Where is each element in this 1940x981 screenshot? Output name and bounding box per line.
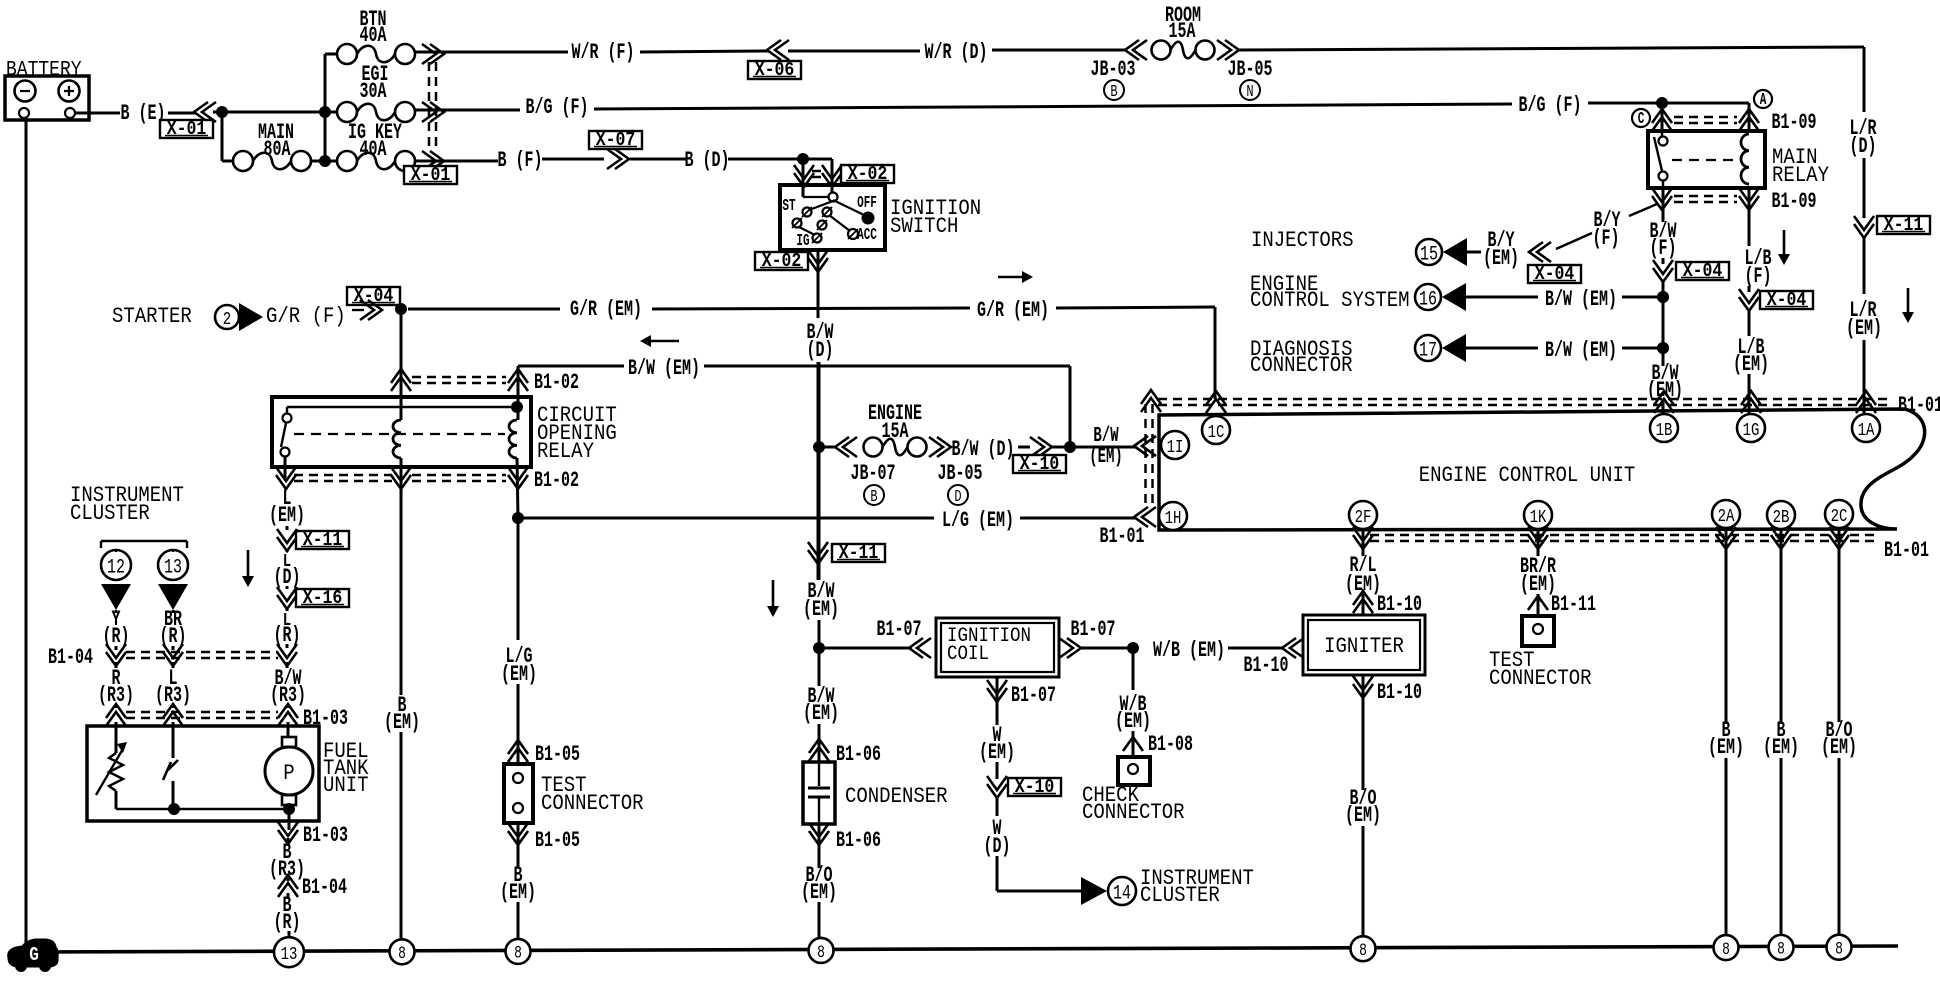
svg-text:X-04: X-04	[1683, 261, 1723, 283]
svg-text:1G: 1G	[1743, 419, 1760, 441]
svg-text:X-06: X-06	[755, 60, 795, 82]
svg-text:B1-07: B1-07	[877, 616, 922, 642]
svg-text:B: B	[1110, 83, 1118, 101]
svg-text:12: 12	[107, 556, 125, 579]
svg-text:X-02: X-02	[848, 164, 888, 186]
svg-text:40A: 40A	[360, 22, 387, 48]
svg-text:B1-07: B1-07	[1011, 682, 1056, 708]
svg-text:B/G (F): B/G (F)	[1519, 92, 1582, 118]
svg-text:W/R (D): W/R (D)	[925, 39, 988, 65]
svg-text:X-04: X-04	[1535, 264, 1575, 286]
svg-text:2F: 2F	[1355, 506, 1372, 528]
svg-text:2B: 2B	[1773, 506, 1790, 528]
svg-text:B1-02: B1-02	[534, 467, 579, 493]
svg-text:X-11: X-11	[1884, 215, 1924, 237]
svg-text:X-04: X-04	[1767, 290, 1807, 312]
svg-text:13: 13	[281, 943, 298, 965]
svg-text:(EM): (EM)	[1089, 446, 1123, 470]
svg-text:ACC: ACC	[857, 226, 877, 245]
svg-text:X-16: X-16	[303, 588, 343, 610]
svg-text:(F): (F)	[1650, 235, 1677, 261]
svg-text:B/W (EM): B/W (EM)	[1545, 286, 1617, 312]
svg-text:2A: 2A	[1718, 505, 1735, 527]
svg-text:X-02: X-02	[762, 251, 802, 273]
svg-text:SWITCH: SWITCH	[890, 215, 958, 240]
svg-text:1H: 1H	[1165, 507, 1182, 529]
svg-text:B (E): B (E)	[121, 100, 166, 126]
svg-text:B1-09: B1-09	[1772, 188, 1817, 214]
svg-text:B (F): B (F)	[498, 147, 543, 173]
svg-text:ST: ST	[782, 197, 795, 216]
svg-text:(EM): (EM)	[1345, 802, 1381, 828]
svg-text:C: C	[1638, 110, 1645, 129]
svg-text:30A: 30A	[360, 78, 387, 104]
svg-text:(EM): (EM)	[384, 709, 420, 735]
svg-text:B1-10: B1-10	[1244, 652, 1289, 678]
svg-text:(R): (R)	[274, 909, 301, 935]
svg-text:B/W (EM): B/W (EM)	[1545, 337, 1617, 363]
svg-text:15A: 15A	[1169, 18, 1196, 44]
svg-text:B/W (D): B/W (D)	[952, 436, 1015, 462]
svg-text:(D): (D)	[984, 833, 1011, 859]
svg-text:X-07: X-07	[596, 130, 636, 152]
svg-text:G/R (F): G/R (F)	[266, 305, 346, 330]
svg-text:(EM): (EM)	[501, 661, 537, 687]
svg-text:IG: IG	[796, 232, 809, 251]
svg-text:(EM): (EM)	[1115, 708, 1151, 734]
svg-text:X-01: X-01	[411, 165, 451, 187]
svg-text:16: 16	[1419, 288, 1437, 311]
svg-text:B1-07: B1-07	[1071, 616, 1116, 642]
svg-text:X-11: X-11	[303, 530, 343, 552]
svg-text:(EM): (EM)	[803, 596, 839, 622]
svg-text:CONNECTOR: CONNECTOR	[541, 792, 644, 817]
svg-text:COIL: COIL	[947, 642, 989, 666]
svg-text:CONDENSER: CONDENSER	[845, 785, 948, 810]
svg-text:B/W (EM): B/W (EM)	[628, 355, 700, 381]
svg-text:(D): (D)	[1850, 133, 1877, 159]
svg-text:UNIT: UNIT	[323, 774, 369, 799]
svg-text:JB-05: JB-05	[938, 460, 983, 486]
svg-text:G: G	[29, 945, 39, 967]
svg-text:(EM): (EM)	[801, 879, 837, 905]
svg-text:(EM): (EM)	[1763, 734, 1799, 760]
svg-text:L/G (EM): L/G (EM)	[942, 507, 1014, 533]
svg-text:CLUSTER: CLUSTER	[1140, 884, 1220, 909]
svg-text:W/R (F): W/R (F)	[572, 39, 635, 65]
svg-text:2C: 2C	[1831, 505, 1848, 527]
svg-text:B1-04: B1-04	[48, 644, 93, 670]
svg-text:8: 8	[398, 943, 406, 963]
svg-text:8: 8	[1722, 939, 1730, 959]
svg-text:B1-11: B1-11	[1551, 591, 1596, 617]
svg-text:X-01: X-01	[167, 119, 207, 141]
svg-text:JB-05: JB-05	[1228, 56, 1273, 82]
svg-text:(EM): (EM)	[1483, 245, 1519, 271]
svg-text:CONTROL SYSTEM: CONTROL SYSTEM	[1250, 289, 1410, 314]
svg-text:15A: 15A	[882, 418, 909, 444]
svg-text:B1-10: B1-10	[1377, 679, 1422, 705]
svg-text:1K: 1K	[1530, 506, 1547, 528]
svg-text:40A: 40A	[360, 136, 387, 162]
svg-text:P: P	[283, 762, 294, 787]
svg-text:(EM): (EM)	[1708, 734, 1744, 760]
svg-text:1C: 1C	[1208, 421, 1225, 443]
svg-text:1I: 1I	[1167, 436, 1184, 458]
svg-text:CONNECTOR: CONNECTOR	[1489, 667, 1592, 692]
svg-text:G/R (EM): G/R (EM)	[570, 296, 642, 322]
svg-text:13: 13	[164, 556, 182, 579]
svg-text:(EM): (EM)	[500, 879, 536, 905]
svg-text:B1-05: B1-05	[535, 741, 580, 767]
svg-text:B1-10: B1-10	[1377, 591, 1422, 617]
svg-text:B1-03: B1-03	[303, 822, 348, 848]
svg-text:CLUSTER: CLUSTER	[70, 502, 150, 527]
svg-text:(EM): (EM)	[1821, 734, 1857, 760]
svg-text:D: D	[954, 488, 961, 506]
svg-text:B1-02: B1-02	[534, 369, 579, 395]
svg-text:8: 8	[1835, 939, 1843, 959]
svg-text:(EM): (EM)	[1733, 351, 1769, 377]
svg-text:N: N	[1246, 83, 1253, 101]
svg-text:(EM): (EM)	[803, 700, 839, 726]
svg-text:B1-01: B1-01	[1100, 523, 1145, 549]
svg-text:B1-01: B1-01	[1884, 537, 1929, 563]
svg-text:IGNITER: IGNITER	[1324, 635, 1404, 660]
svg-text:B1-05: B1-05	[535, 827, 580, 853]
svg-text:OFF: OFF	[857, 194, 877, 213]
svg-text:B1-01: B1-01	[1898, 392, 1940, 418]
svg-text:(EM): (EM)	[269, 502, 305, 528]
svg-text:B/G (F): B/G (F)	[526, 94, 589, 120]
svg-text:X-11: X-11	[839, 543, 879, 565]
svg-text:CONNECTOR: CONNECTOR	[1250, 354, 1353, 379]
svg-text:A: A	[1760, 91, 1767, 110]
svg-text:1B: 1B	[1656, 419, 1673, 441]
svg-text:JB-03: JB-03	[1091, 56, 1136, 82]
svg-text:X-10: X-10	[1015, 777, 1055, 799]
svg-text:(D): (D)	[807, 337, 834, 363]
svg-text:B1-08: B1-08	[1148, 731, 1193, 757]
svg-text:8: 8	[1359, 940, 1367, 960]
svg-text:15: 15	[1420, 243, 1438, 266]
svg-text:W/B (EM): W/B (EM)	[1153, 637, 1225, 663]
svg-text:B/W: B/W	[1093, 425, 1118, 449]
svg-text:1A: 1A	[1858, 419, 1875, 441]
svg-text:2: 2	[223, 308, 231, 330]
svg-text:17: 17	[1419, 339, 1437, 362]
svg-text:B1-09: B1-09	[1772, 109, 1817, 135]
svg-text:8: 8	[817, 942, 825, 962]
svg-text:(F): (F)	[1745, 263, 1772, 289]
svg-text:8: 8	[514, 943, 522, 963]
svg-text:B1-06: B1-06	[836, 827, 881, 853]
svg-text:X-10: X-10	[1020, 454, 1060, 476]
svg-text:(EM): (EM)	[979, 739, 1015, 765]
svg-text:B (D): B (D)	[685, 147, 730, 173]
svg-text:(F): (F)	[1593, 225, 1620, 251]
svg-text:8: 8	[1777, 939, 1785, 959]
svg-text:ENGINE CONTROL UNIT: ENGINE CONTROL UNIT	[1419, 464, 1635, 489]
svg-text:G/R (EM): G/R (EM)	[977, 297, 1049, 323]
svg-text:14: 14	[1113, 882, 1131, 905]
svg-text:B1-06: B1-06	[836, 741, 881, 767]
svg-text:B1-04: B1-04	[302, 874, 347, 900]
svg-text:RELAY: RELAY	[537, 440, 594, 465]
svg-text:RELAY: RELAY	[1772, 164, 1829, 189]
svg-text:BATTERY: BATTERY	[6, 58, 82, 82]
svg-text:80A: 80A	[264, 136, 291, 162]
svg-text:B: B	[870, 488, 878, 506]
svg-text:STARTER: STARTER	[112, 305, 192, 330]
svg-text:CONNECTOR: CONNECTOR	[1082, 801, 1185, 826]
svg-text:INJECTORS: INJECTORS	[1251, 229, 1354, 254]
svg-text:JB-07: JB-07	[851, 460, 896, 486]
svg-text:(EM): (EM)	[1846, 315, 1882, 341]
